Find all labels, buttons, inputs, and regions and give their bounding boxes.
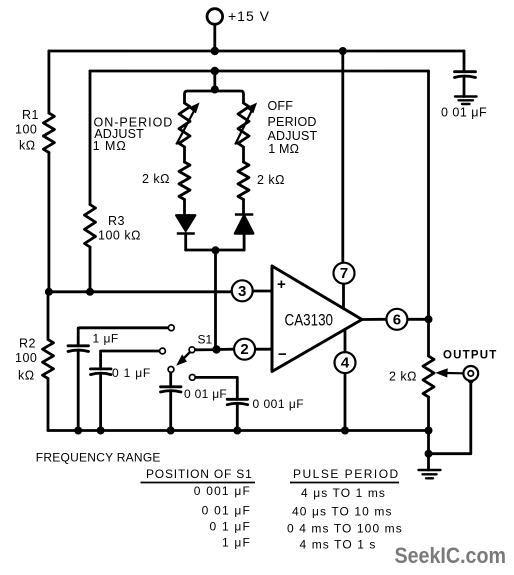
svg-text:R3: R3 xyxy=(108,214,125,228)
table rows period column xyxy=(287,486,403,552)
junction 0.01uF ground rail xyxy=(167,427,175,435)
svg-text:0 4 ms TO 100 ms: 0 4 ms TO 100 ms xyxy=(287,522,403,536)
svg-text:100: 100 xyxy=(15,351,37,365)
resistor R3 100k xyxy=(85,205,96,248)
svg-text:OFF: OFF xyxy=(268,99,294,113)
resistor 2k right xyxy=(238,162,249,200)
capacitor 0.01uF plates xyxy=(161,387,182,392)
wire left rail xyxy=(47,51,51,431)
wire rail1 top xyxy=(49,50,464,53)
switch S1 wiper arm xyxy=(180,352,191,363)
svg-text:R1: R1 xyxy=(22,108,39,122)
svg-text:4 μs TO 1 ms: 4 μs TO 1 ms xyxy=(301,486,386,500)
wire diodes bottom bar xyxy=(186,249,244,252)
potentiometer OFF-PERIOD 1M xyxy=(238,103,249,147)
capacitor 1uF branch wires xyxy=(78,328,168,431)
table rows position column xyxy=(194,484,251,550)
wire pin3 rail xyxy=(49,290,272,294)
junction pin4 ground rail xyxy=(341,427,349,435)
svg-text:2 kΩ: 2 kΩ xyxy=(142,172,170,186)
wire pin6 to right rail xyxy=(362,318,429,321)
svg-text:POSITION OF S1: POSITION OF S1 xyxy=(146,467,253,481)
junction rail1 pin7 feed xyxy=(339,47,347,55)
switch S1 pole pivot xyxy=(189,347,195,353)
junction pot ground rail xyxy=(425,427,433,435)
svg-text:kΩ: kΩ xyxy=(18,369,35,383)
svg-text:2 kΩ: 2 kΩ xyxy=(257,173,285,187)
pot arrow right xyxy=(235,104,256,145)
svg-text:0 01 μF: 0 01 μF xyxy=(184,387,227,401)
pot arrow left xyxy=(176,104,198,145)
capacitor 1uF plates xyxy=(68,346,89,352)
capacitor 0.1uF branch wires xyxy=(101,351,160,431)
junction pin6 output node xyxy=(425,315,433,323)
svg-text:40 μs TO 10 ms: 40 μs TO 10 ms xyxy=(292,505,393,519)
output pot wiper arrow xyxy=(437,369,464,377)
ground top right xyxy=(455,97,477,105)
op-amp CA3130 triangle xyxy=(272,266,362,372)
switch S1 contact 0.001uF xyxy=(189,375,195,381)
wire pot to 2k right xyxy=(242,147,245,162)
wire 2k to diode left xyxy=(183,200,186,216)
junction rail2 pots feed xyxy=(211,67,219,75)
resistor 2k output pot xyxy=(423,356,434,397)
wire pin2 connections xyxy=(195,348,272,351)
underline position xyxy=(141,482,256,484)
resistor 2k left xyxy=(179,162,190,200)
svg-text:100 kΩ: 100 kΩ xyxy=(98,229,141,243)
capacitor 0.1uF plates xyxy=(91,369,112,375)
capacitor 0.01uF top right plates xyxy=(455,72,476,78)
svg-text:1 μF: 1 μF xyxy=(222,536,251,550)
ground bottom xyxy=(419,470,441,478)
pin circle 2 xyxy=(234,339,255,360)
junction pots branch split xyxy=(211,86,219,94)
svg-text:2 kΩ: 2 kΩ xyxy=(389,370,417,384)
switch S1 contact 0.01uF xyxy=(168,367,174,373)
wire pots top branch xyxy=(185,71,244,103)
junction R1 pin3 rail xyxy=(45,288,53,296)
switch S1 contact 0.1uF xyxy=(160,348,166,354)
wire diode left to bottom bar xyxy=(184,234,187,251)
svg-text:+15 V: +15 V xyxy=(228,8,270,24)
diode D2 right (pointing up) xyxy=(235,215,253,234)
wire supply to rail1 xyxy=(213,24,216,51)
wire 0.01uF top right xyxy=(463,51,466,97)
svg-text:1 MΩ: 1 MΩ xyxy=(93,139,127,153)
svg-text:3: 3 xyxy=(238,283,246,300)
svg-text:CA3130: CA3130 xyxy=(285,311,334,330)
svg-text:0 01 μF: 0 01 μF xyxy=(441,106,487,120)
label R2 100 k xyxy=(15,337,37,383)
diode D1 left (pointing down) xyxy=(176,215,195,233)
svg-text:R2: R2 xyxy=(19,337,36,351)
svg-text:−: − xyxy=(278,346,287,363)
junction output return ground xyxy=(425,450,433,458)
resistor R2 100k xyxy=(43,340,54,379)
svg-text:0 01 μF: 0 01 μF xyxy=(202,504,251,518)
svg-text:kΩ: kΩ xyxy=(19,139,36,153)
label R3 100 k xyxy=(98,214,141,243)
junction S1 pole node xyxy=(212,345,220,353)
output terminal xyxy=(463,366,478,381)
junction 0.001uF ground rail xyxy=(233,427,241,435)
svg-text:0 001 μF: 0 001 μF xyxy=(194,484,251,498)
junction diodes bottom xyxy=(212,246,220,254)
wire inner-left rail xyxy=(89,71,92,292)
svg-text:7: 7 xyxy=(340,265,348,282)
svg-text:1 MΩ: 1 MΩ xyxy=(268,142,299,156)
capacitor 0.001uF plates xyxy=(227,399,248,404)
svg-text:0 1 μF: 0 1 μF xyxy=(112,366,151,380)
junction 0.1uF ground rail xyxy=(97,427,105,435)
junction supply rail1 xyxy=(211,47,219,55)
svg-text:ADJUST: ADJUST xyxy=(268,129,318,143)
wire right vertical output node xyxy=(427,71,430,470)
wire diode right to bottom bar xyxy=(243,234,246,251)
svg-text:4: 4 xyxy=(341,355,350,372)
label OFF PERIOD ADJUST 1M xyxy=(268,99,318,156)
svg-text:6: 6 xyxy=(393,311,401,328)
svg-text:0 1 μF: 0 1 μF xyxy=(210,520,251,534)
switch S1 arrowhead xyxy=(177,355,186,364)
svg-text:PULSE PERIOD: PULSE PERIOD xyxy=(293,467,400,481)
underline pulse xyxy=(290,482,399,484)
svg-text:PERIOD: PERIOD xyxy=(268,115,317,129)
wire pin4 vertical xyxy=(344,329,347,430)
label R1 100 k xyxy=(15,108,39,153)
svg-text:2: 2 xyxy=(240,341,248,358)
pin circle 4 xyxy=(335,352,356,373)
svg-text:S1: S1 xyxy=(198,333,213,347)
wire bottom ground rail xyxy=(48,429,429,432)
svg-text:+: + xyxy=(277,276,286,293)
svg-text:0 001 μF: 0 001 μF xyxy=(253,397,305,411)
wire 2k to diode right xyxy=(242,200,245,215)
svg-text:4 ms TO 1 s: 4 ms TO 1 s xyxy=(300,538,377,552)
wire pin7 vertical xyxy=(341,51,345,309)
svg-text:OUTPUT: OUTPUT xyxy=(443,350,497,362)
switch S1 contact 1uF xyxy=(168,325,174,331)
wire timing node vertical xyxy=(214,250,217,350)
junction R3 pin3 rail xyxy=(86,288,94,296)
capacitor 0.01uF branch wires xyxy=(169,372,172,430)
wire output terminal drop xyxy=(429,381,471,454)
pin circle 3 xyxy=(232,263,478,381)
junction output terminal stem xyxy=(468,378,474,384)
potentiometer ON-PERIOD 1M xyxy=(179,103,190,147)
wire rail2 output feedback xyxy=(90,70,429,73)
label ON-PERIOD ADJUST 1M xyxy=(93,115,174,153)
wire pot to 2k left xyxy=(183,147,186,162)
svg-text:100: 100 xyxy=(15,123,37,137)
svg-text:FREQUENCY RANGE: FREQUENCY RANGE xyxy=(36,451,161,465)
svg-text:SeekIC.com: SeekIC.com xyxy=(395,543,507,568)
pin circle 6 xyxy=(386,309,407,330)
+15V terminal xyxy=(207,9,223,25)
capacitor 0.001uF branch wires xyxy=(195,377,238,430)
pin circle 7 xyxy=(334,263,355,284)
resistor R1 100k xyxy=(43,113,54,153)
junction 1uF ground rail xyxy=(74,427,82,435)
svg-text:1 μF: 1 μF xyxy=(93,332,119,346)
